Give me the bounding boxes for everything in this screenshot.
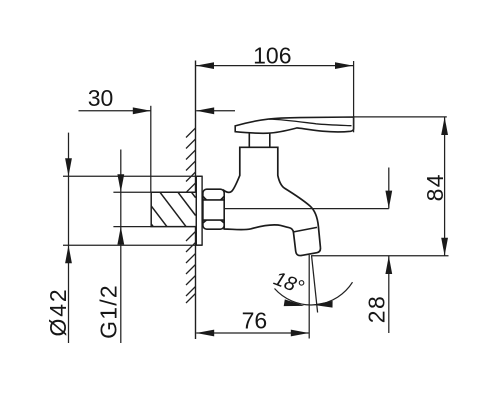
axis line through body	[224, 208, 389, 210]
spout joint line	[294, 227, 317, 232]
hex nut	[203, 189, 224, 229]
angle arc	[275, 282, 353, 305]
dimension 106	[196, 61, 354, 132]
svg-text:28: 28	[364, 295, 390, 323]
angle 18 deg reference vertical	[308, 255, 310, 339]
svg-text:G1/2: G1/2	[95, 284, 121, 339]
dimension 30	[79, 106, 236, 193]
dimension 76	[196, 332, 309, 334]
flange escutcheon	[196, 176, 202, 245]
wall	[195, 61, 197, 340]
wall hatching	[186, 128, 196, 303]
angle 18 deg flow line	[312, 256, 318, 313]
svg-text:106: 106	[253, 43, 291, 69]
dimension 84	[311, 117, 449, 256]
svg-text:84: 84	[422, 173, 448, 201]
dimension D42	[63, 133, 202, 343]
faucet body	[224, 147, 320, 255]
angle arc arrows	[284, 299, 333, 307]
dimension 28	[388, 168, 390, 334]
svg-text:76: 76	[242, 307, 268, 333]
dimension G1/2	[113, 150, 151, 344]
threaded inlet block G1/2	[151, 192, 195, 226]
svg-text:30: 30	[88, 85, 114, 111]
handle crease	[269, 119, 352, 126]
block hatching	[151, 192, 195, 226]
handle stem	[249, 133, 269, 147]
svg-text:Ø42: Ø42	[45, 288, 71, 337]
handle lever	[235, 117, 353, 133]
